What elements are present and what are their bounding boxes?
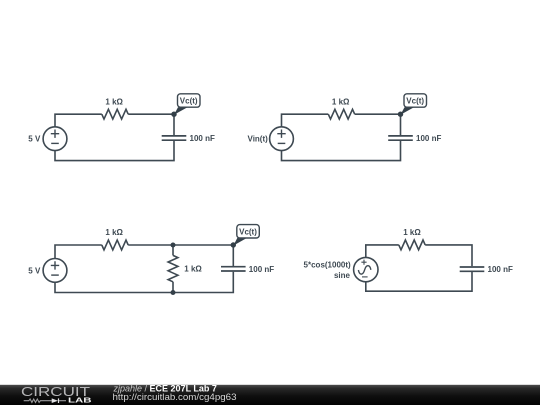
resistor R2 bbox=[328, 109, 354, 119]
wire C2 bottom plate to V2 bottom bbox=[282, 141, 401, 161]
resistor R5 bbox=[399, 240, 425, 250]
CircuitLab logo resistor-diode glyph bbox=[24, 398, 66, 403]
svg-text:sine: sine bbox=[334, 271, 351, 280]
flag Vc(t) (bottom-left) bbox=[233, 225, 259, 246]
svg-text:CIRCUIT: CIRCUIT bbox=[21, 384, 90, 399]
svg-text:Vc(t): Vc(t) bbox=[239, 228, 257, 237]
wire node to C3 top plate bbox=[232, 245, 234, 266]
node Vc(t) junction dot (top-right) bbox=[398, 112, 403, 117]
voltage source V3 bbox=[43, 259, 67, 283]
svg-text:1 kΩ: 1 kΩ bbox=[105, 228, 123, 237]
wire R2 to node Vc(t) bbox=[355, 113, 401, 115]
svg-text:Vc(t): Vc(t) bbox=[406, 97, 424, 106]
resistor R1 bbox=[102, 109, 128, 119]
node Vc(t) junction dot (bottom-left) bbox=[231, 242, 236, 247]
resistor R4 (vertical) bbox=[168, 255, 178, 281]
capacitor C1 bbox=[162, 136, 187, 140]
svg-text:100 nF: 100 nF bbox=[416, 134, 441, 143]
svg-text:5 V: 5 V bbox=[28, 266, 41, 275]
node Vc(t) junction dot bbox=[171, 112, 176, 117]
resistor R3 bbox=[102, 240, 128, 250]
voltage source V1 bbox=[43, 127, 67, 151]
flag Vc(t) (top-right) bbox=[401, 94, 427, 115]
svg-text:1 kΩ: 1 kΩ bbox=[184, 265, 202, 274]
svg-text:LAB: LAB bbox=[68, 398, 92, 405]
svg-text:100 nF: 100 nF bbox=[190, 134, 215, 143]
wire V1 top to R1 bbox=[55, 114, 102, 127]
svg-text:1 kΩ: 1 kΩ bbox=[105, 97, 123, 106]
footer background bar bbox=[0, 385, 540, 405]
wire R1 to node Vc(t) bbox=[128, 113, 174, 115]
wire C3 bottom to bottom rail bbox=[55, 272, 233, 293]
capacitor C3 bbox=[221, 267, 246, 271]
svg-text:5 V: 5 V bbox=[28, 135, 41, 144]
wire V4 top to R5 bbox=[366, 245, 399, 258]
svg-text:Vin(t): Vin(t) bbox=[248, 135, 269, 144]
wire R4 bottom lead bbox=[172, 282, 174, 293]
svg-text:Vc(t): Vc(t) bbox=[180, 97, 198, 106]
svg-text:100 nF: 100 nF bbox=[488, 265, 513, 274]
wire C1 bottom plate to V1 bottom bbox=[55, 141, 174, 161]
capacitor C2 bbox=[388, 136, 413, 140]
wire C4 bottom to V4 bottom bbox=[366, 272, 472, 291]
capacitor C4 bbox=[460, 267, 485, 271]
wire node to C2 top plate bbox=[400, 114, 402, 135]
svg-text:1 kΩ: 1 kΩ bbox=[332, 97, 350, 106]
wire V3 top to R3 bbox=[55, 245, 102, 259]
svg-text:1 kΩ: 1 kΩ bbox=[403, 228, 421, 237]
wire node to C1 top plate bbox=[173, 114, 175, 135]
junction B dot (bottom) bbox=[171, 290, 176, 295]
junction A dot (top) bbox=[171, 243, 176, 248]
flag Vc(t) bbox=[174, 94, 200, 115]
wire R3 to junction A bbox=[128, 244, 173, 246]
wire junction A to node Vc(t) bbox=[173, 244, 233, 246]
wire V2 top to R2 bbox=[282, 114, 329, 127]
svg-text:100 nF: 100 nF bbox=[249, 265, 274, 274]
svg-text:5*cos(1000t): 5*cos(1000t) bbox=[304, 260, 351, 269]
voltage source V2 Vin(t) bbox=[270, 127, 294, 151]
wire R5 to right rail bbox=[425, 245, 472, 266]
wire R4 top lead bbox=[172, 245, 174, 255]
voltage source V4 (sine) bbox=[354, 257, 378, 281]
svg-text:http://circuitlab.com/cg4pg63: http://circuitlab.com/cg4pg63 bbox=[113, 392, 237, 402]
